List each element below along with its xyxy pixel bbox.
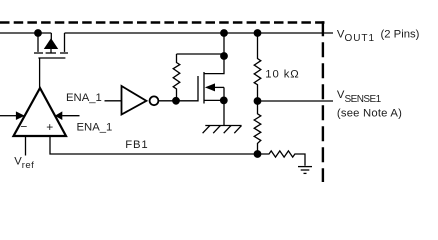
label: VOUT1 (2 Pins) pin bbox=[337, 28, 420, 44]
svg-text:−: − bbox=[20, 120, 27, 134]
svg-text:FB1: FB1 bbox=[125, 139, 148, 151]
wire: Q1 gate to op-amp output bbox=[39, 58, 41, 88]
svg-text:(2 Pins): (2 Pins) bbox=[381, 28, 420, 40]
wire: ENA_1 to inverter input bbox=[105, 100, 122, 102]
wire: pull-up to VOUT rail column bbox=[177, 33, 225, 54]
dashed IC boundary top bbox=[0, 21, 325, 23]
svg-text:SENSE1: SENSE1 bbox=[345, 94, 382, 105]
svg-text:10 kΩ: 10 kΩ bbox=[265, 69, 299, 81]
op-amp U1 error amplifier bbox=[14, 88, 67, 136]
svg-text:OUT1: OUT1 bbox=[345, 33, 375, 44]
wire: FB1 feedback from plus input to divider bbox=[50, 136, 258, 154]
discharge transistor Q2 bbox=[198, 54, 224, 104]
node: sense junction bbox=[254, 97, 262, 105]
svg-text:+: + bbox=[46, 120, 53, 134]
body diode of Q1 bbox=[45, 33, 57, 53]
label: VSENSE1 pin bbox=[337, 89, 382, 105]
wire: inverter output to Q2 gate bbox=[159, 100, 198, 102]
resistor R2 gate pull-up bbox=[173, 54, 180, 101]
node: VOUT rail to 10k bbox=[254, 29, 262, 37]
node: Q2 source junction bbox=[220, 97, 228, 105]
wire+arrow: left control into U1 bbox=[0, 111, 25, 120]
inverter U2 bbox=[122, 86, 159, 115]
node: Q1 input junction bbox=[34, 29, 42, 37]
node: pull-up junction bbox=[220, 52, 228, 60]
wire: Vref to inverting input bbox=[25, 136, 27, 156]
node: FB junction bbox=[254, 150, 262, 158]
resistor R3 lower divider bbox=[254, 101, 261, 154]
node: rail junction above Q2 bbox=[220, 29, 228, 37]
ground: chassis ground under Q2 bbox=[203, 126, 242, 134]
wire: input rail to Q1 bbox=[0, 32, 51, 34]
wire+arrow: ENA_1 control into U1 right side bbox=[55, 111, 80, 120]
label: Vref bbox=[14, 156, 34, 171]
body arrow of Q2 bbox=[205, 83, 215, 91]
wire: output rail from Q1 to VOUT1 pin bbox=[65, 32, 334, 34]
pass transistor Q1 bbox=[34, 33, 68, 58]
wire: Q2 source to ground bbox=[223, 100, 225, 125]
svg-text:(see Note A): (see Note A) bbox=[337, 107, 402, 119]
node: gate pull-up junction bbox=[172, 97, 180, 105]
svg-text:ENA_1: ENA_1 bbox=[66, 92, 102, 104]
dashed IC boundary right bbox=[322, 21, 324, 182]
wire: sense tap to VSENSE1 pin bbox=[258, 100, 334, 102]
svg-text:ENA_1: ENA_1 bbox=[77, 121, 113, 133]
resistor R1 10 kOhm bbox=[254, 33, 261, 101]
resistor R4 to ground (horizontal) bbox=[258, 151, 306, 166]
ground: earth ground at R4 bbox=[298, 167, 312, 174]
svg-text:ref: ref bbox=[22, 160, 35, 171]
